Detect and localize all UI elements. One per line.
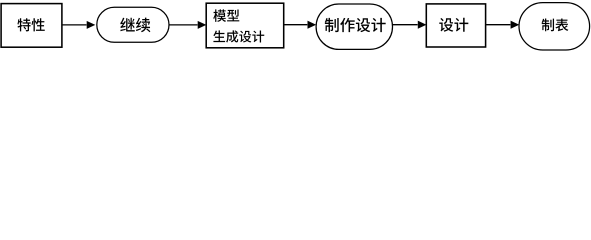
arrow 制作设计→设计 bbox=[393, 21, 426, 28]
label 模型 bbox=[213, 9, 239, 22]
terminator oval 制作设计 bbox=[316, 4, 392, 49]
process box 设计 bbox=[426, 4, 485, 47]
process box 特性 bbox=[1, 4, 62, 48]
label 制作设计 bbox=[325, 18, 386, 32]
process box 模型/生成设计 bbox=[206, 3, 284, 48]
label 制表 bbox=[542, 18, 569, 31]
arrow 特性→继续 bbox=[62, 21, 94, 28]
label 继续 bbox=[120, 18, 150, 33]
arrow 设计→制表 bbox=[486, 21, 518, 28]
label 生成设计 bbox=[213, 30, 264, 42]
label 特性 bbox=[17, 18, 44, 31]
arrow 继续→模型生成设计 bbox=[169, 21, 205, 28]
terminator oval 继续 bbox=[97, 7, 169, 42]
arrow 模型生成设计→制作设计 bbox=[284, 21, 315, 28]
terminator oval 制表 bbox=[519, 3, 590, 50]
label 设计 bbox=[439, 18, 468, 32]
